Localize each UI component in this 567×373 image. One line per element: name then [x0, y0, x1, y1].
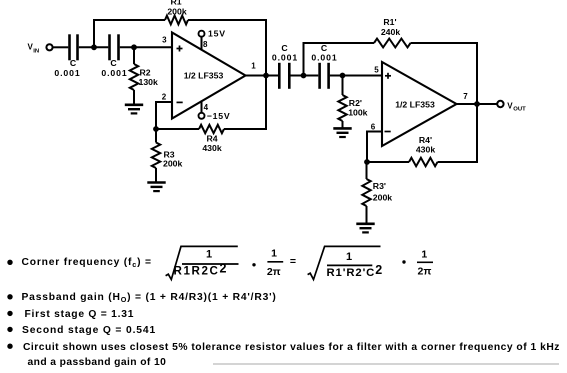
node A junction: [91, 44, 97, 50]
svg-text:7: 7: [463, 92, 468, 101]
op-amp U2 1/2 LF353: [382, 62, 457, 146]
resistor R2' 100k: [338, 76, 367, 129]
svg-text:200k: 200k: [163, 158, 182, 168]
svg-text:R4': R4': [419, 135, 432, 145]
svg-text:IN: IN: [33, 48, 39, 54]
svg-text:130k: 130k: [139, 77, 158, 87]
node OUT2 junction: [474, 101, 480, 107]
svg-text:C: C: [321, 43, 328, 53]
svg-text:1: 1: [421, 248, 427, 260]
text corner frequency: [22, 257, 152, 269]
ground (R3): [147, 183, 165, 192]
svg-text:C: C: [281, 43, 288, 53]
ground (R2'): [333, 128, 351, 137]
svg-text:3: 3: [162, 35, 167, 44]
node F junction: [364, 159, 370, 165]
svg-text:R2: R2: [140, 68, 151, 78]
svg-text:1: 1: [271, 248, 277, 260]
wire feedback left (node A up and across): [94, 20, 165, 47]
svg-text:OUT: OUT: [513, 106, 526, 112]
wire pin 2 to node C: [156, 102, 172, 129]
svg-text:240k: 240k: [381, 27, 400, 37]
svg-text:First stage Q = 1.31: First stage Q = 1.31: [25, 309, 135, 320]
bullet 2: [7, 294, 12, 299]
dot operator 1: [252, 263, 255, 266]
capacitor C (fourth, 0.001): [311, 43, 337, 89]
wire R4' to output node: [438, 104, 478, 162]
svg-text:0.001: 0.001: [101, 68, 127, 78]
wire feedback 2 right: [411, 43, 478, 104]
resistor R2 130k: [130, 47, 158, 105]
svg-text:=: =: [290, 256, 296, 268]
wire R4 to output node: [224, 76, 266, 130]
svg-text:1: 1: [346, 251, 352, 263]
radical 2: [308, 246, 381, 279]
node VIN label: [28, 43, 40, 55]
svg-text:2π: 2π: [267, 266, 281, 278]
resistor R1 200k: [165, 0, 188, 24]
fraction 1/2pi (second): [417, 248, 433, 277]
resistor R3 200k: [152, 129, 183, 183]
wire C4 to op-amp pin 5: [330, 75, 382, 77]
capacitor C (first, 0.001): [54, 34, 80, 78]
op-amp U1 1/2 LF353: [172, 33, 246, 119]
terminal VIN: [46, 44, 52, 50]
node OUT1 junction: [263, 73, 269, 79]
wire feedback right (to output node): [188, 20, 266, 76]
svg-text:Second stage Q = 0.541: Second stage Q = 0.541: [22, 325, 156, 336]
svg-text:Passband gain (HO) = (1 + R4/: Passband gain (HO) = (1 + R4/R3)(1 + R4'…: [22, 292, 277, 304]
wire C3 to C4: [291, 75, 319, 77]
bullet 5: [7, 344, 12, 349]
capacitor C (third, 0.001): [272, 43, 298, 89]
resistor R3' 200k: [362, 162, 392, 224]
ground (R3'): [356, 224, 374, 233]
capacitor C (second, 0.001): [101, 34, 127, 78]
fraction 1/2pi (first): [267, 248, 283, 278]
svg-text:2: 2: [162, 92, 167, 101]
svg-text:C: C: [110, 58, 117, 68]
wire VIN to C: [53, 46, 69, 48]
svg-text:5: 5: [374, 65, 379, 74]
resistor R1' 240k: [374, 17, 411, 47]
svg-text:0.001: 0.001: [54, 68, 80, 78]
fraction 1/R1R2C2 primed: [327, 251, 384, 279]
svg-text:6: 6: [371, 123, 376, 132]
node D junction: [301, 73, 307, 79]
bullet 1: [7, 260, 12, 265]
node B junction: [131, 44, 137, 50]
svg-text:1: 1: [206, 249, 212, 261]
svg-text:R3': R3': [373, 181, 386, 191]
bullet 3: [7, 311, 12, 316]
svg-text:−15V: −15V: [207, 111, 231, 121]
-15V supply: [199, 101, 231, 122]
svg-text:1/2 LF353: 1/2 LF353: [184, 71, 224, 81]
svg-text:1/2 LF353: 1/2 LF353: [395, 100, 435, 110]
resistor R4' 430k: [367, 135, 438, 166]
dot operator 2: [402, 260, 405, 263]
text passband gain: [22, 292, 277, 304]
svg-text:1: 1: [251, 62, 256, 71]
scan artifact line: [213, 363, 559, 365]
bullet 4: [7, 327, 12, 332]
wire C to node A: [79, 46, 109, 48]
svg-text:R4: R4: [206, 133, 217, 143]
node C junction: [153, 126, 159, 132]
wire op-amp output: [246, 75, 279, 77]
svg-text:430k: 430k: [416, 145, 435, 155]
+15V supply: [199, 29, 226, 50]
svg-text:C: C: [70, 58, 77, 68]
svg-text:430k: 430k: [202, 143, 221, 153]
resistor R4 430k: [156, 125, 224, 153]
svg-text:2π: 2π: [418, 265, 432, 277]
wire op-amp 2 output: [457, 103, 498, 105]
svg-text:and a passband gain of 10: and a passband gain of 10: [28, 357, 167, 368]
terminal VOUT: [497, 101, 503, 107]
ground (R2): [125, 105, 143, 114]
node VOUT label: [507, 102, 526, 113]
fraction 1/R1R2C2: [174, 249, 239, 278]
svg-text:Corner frequency (fc) =: Corner frequency (fc) =: [22, 257, 152, 269]
node E junction: [340, 73, 346, 79]
svg-text:200k: 200k: [373, 193, 392, 203]
radical 1: [166, 246, 238, 279]
svg-text:0.001: 0.001: [272, 53, 298, 63]
wire feedback 2 left: [304, 43, 375, 76]
svg-text:8: 8: [203, 40, 208, 49]
svg-text:0.001: 0.001: [311, 53, 337, 63]
wire C to op-amp pin 3: [120, 46, 172, 48]
svg-text:R1R2C2: R1R2C2: [174, 261, 229, 277]
svg-text:200k: 200k: [167, 7, 186, 17]
wire pin 6 to node F: [367, 132, 382, 163]
svg-text:R1': R1': [383, 17, 396, 27]
svg-text:100k: 100k: [348, 108, 367, 118]
svg-text:15V: 15V: [208, 29, 226, 39]
svg-text:Circuit shown uses closest 5%: Circuit shown uses closest 5% tolerance …: [23, 342, 560, 353]
